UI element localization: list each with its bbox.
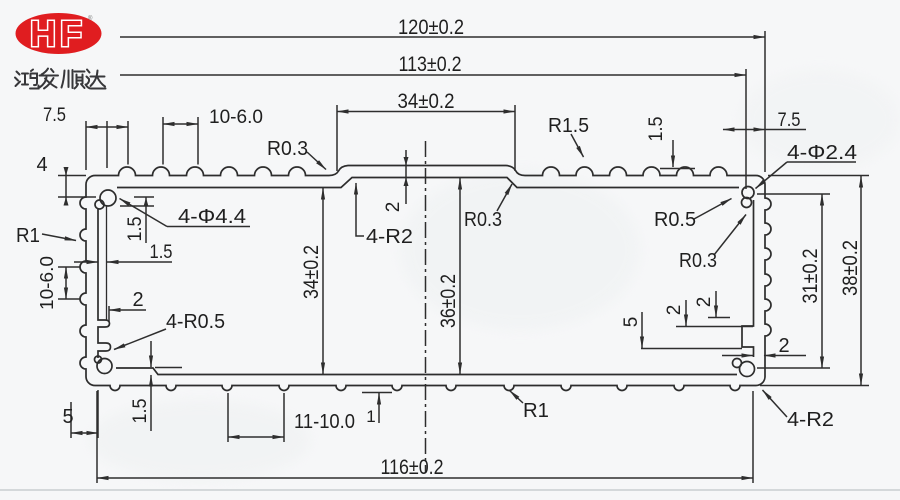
dimension 11-10.0 bottom — [228, 393, 355, 442]
svg-text:10-6.0: 10-6.0 — [37, 256, 57, 310]
svg-text:R1: R1 — [523, 400, 549, 422]
svg-text:4-R0.5: 4-R0.5 — [166, 311, 225, 333]
svg-text:11-10.0: 11-10.0 — [294, 411, 355, 433]
svg-text:1: 1 — [366, 407, 375, 426]
profile inner bottom wall with step — [116, 368, 737, 375]
svg-text:1.5: 1.5 — [130, 399, 151, 424]
dimension 2 plateau thickness — [383, 150, 409, 212]
svg-text:5: 5 — [621, 317, 642, 328]
char da — [86, 70, 106, 89]
leader R1 left — [16, 225, 76, 247]
svg-text:4: 4 — [36, 154, 47, 176]
leader R0.3 top — [267, 138, 326, 170]
svg-text:4-Φ4.4: 4-Φ4.4 — [178, 206, 246, 228]
leader R0.3 center — [464, 184, 512, 231]
svg-text:4-Φ2.4: 4-Φ2.4 — [787, 142, 857, 164]
scanner artifact line bottom — [0, 489, 900, 491]
dimension 120±0.2 — [120, 16, 765, 172]
screw boss bottom-right — [733, 359, 755, 377]
dimension 113±0.2 — [120, 53, 746, 189]
svg-text:1.5: 1.5 — [646, 117, 667, 142]
dimension 5 bottom left — [62, 390, 98, 438]
svg-text:2: 2 — [778, 335, 789, 357]
svg-text:116±0.2: 116±0.2 — [381, 456, 444, 479]
screw boss bottom-left — [95, 356, 113, 374]
svg-text:2: 2 — [694, 297, 715, 308]
svg-text:1.5: 1.5 — [125, 217, 146, 242]
svg-text:R0.5: R0.5 — [654, 209, 696, 231]
leader 4-R0.5 — [114, 311, 225, 350]
svg-text:®: ® — [88, 15, 93, 22]
svg-text:36±0.2: 36±0.2 — [437, 274, 460, 328]
svg-text:7.5: 7.5 — [43, 105, 66, 126]
svg-text:38±0.2: 38±0.2 — [839, 240, 862, 296]
dimension 38±0.2 right — [760, 176, 869, 386]
dimension 2 right first — [664, 300, 753, 327]
screw boss top-left — [95, 190, 116, 209]
char shun — [62, 70, 73, 88]
dimension 116±0.2 bottom — [97, 391, 753, 483]
dimension 4 left — [36, 154, 96, 206]
logo ellipse HF — [16, 13, 102, 54]
dimension 1.5 top left rotated — [120, 197, 154, 243]
svg-text:R0.3: R0.3 — [267, 138, 308, 160]
svg-text:31±0.2: 31±0.2 — [799, 249, 822, 304]
dimension 36±0.2 interior — [437, 178, 460, 374]
svg-text:113±0.2: 113±0.2 — [399, 53, 462, 76]
dimension 10-6.0 left rotated — [37, 256, 80, 310]
boss center extension line top left — [106, 121, 108, 168]
svg-text:4-R2: 4-R2 — [366, 226, 413, 248]
svg-text:R1.5: R1.5 — [548, 115, 589, 137]
svg-text:10-6.0: 10-6.0 — [209, 107, 263, 128]
dimension 2 left ledge — [109, 289, 146, 321]
svg-text:5: 5 — [62, 406, 73, 428]
inner wall auxiliary line left — [106, 206, 108, 320]
leader 4-Φ2.4 top right — [756, 142, 858, 189]
leader 4-R2 bottom right — [763, 390, 835, 431]
leader R1.5 top — [548, 115, 589, 157]
svg-text:HF: HF — [30, 13, 86, 54]
profile inner right wall with ledge — [742, 200, 754, 357]
svg-text:2: 2 — [664, 305, 685, 316]
leader 4-Φ4.4 — [120, 199, 251, 229]
svg-text:7.5: 7.5 — [778, 110, 801, 131]
char fa — [40, 69, 59, 89]
dimension 31±0.2 right — [757, 194, 830, 368]
dimension 10-6.0 top left — [163, 107, 263, 165]
dimension 1.5 left horizontal — [74, 242, 173, 263]
svg-text:34±0.2: 34±0.2 — [300, 245, 323, 299]
svg-text:2: 2 — [383, 202, 404, 213]
dimension 2 bottom right wall — [722, 335, 806, 357]
leader R1 bottom — [510, 391, 550, 423]
leader R0.5 right — [654, 199, 732, 232]
svg-text:R1: R1 — [16, 225, 40, 247]
profile inner left wall with tabs — [98, 208, 111, 358]
leader R0.3 right — [679, 215, 746, 273]
svg-text:R0.3: R0.3 — [679, 250, 717, 272]
dimension 1.5 top right — [646, 117, 695, 169]
svg-text:34±0.2: 34±0.2 — [398, 90, 455, 113]
dimension 34±0.2 interior — [300, 188, 323, 374]
screw boss top-right — [742, 187, 755, 208]
dimension 7.5 top right — [723, 110, 806, 131]
profile inner top wall with center groove — [117, 178, 739, 188]
vertical centerline dash-dot — [425, 141, 427, 473]
dimension 2 right second — [694, 291, 730, 318]
svg-text:R0.3: R0.3 — [464, 209, 502, 231]
svg-text:120±0.2: 120±0.2 — [398, 16, 464, 39]
company name hongfashunda (hand-drawn glyphs) — [15, 69, 106, 89]
dimension 1 rib height — [362, 393, 392, 427]
svg-text:2: 2 — [132, 289, 143, 311]
dimension 34±0.2 top — [337, 90, 515, 171]
char hong — [15, 72, 20, 87]
dimension 1.5 bottom left rotated — [130, 341, 182, 431]
svg-text:1.5: 1.5 — [150, 242, 173, 263]
svg-text:4-R2: 4-R2 — [787, 409, 834, 431]
leader 4-R2 center — [356, 183, 413, 248]
dimension 7.5 top left — [43, 105, 128, 170]
dimension 5 right rotated — [621, 312, 742, 349]
profile outer contour — [80, 166, 771, 391]
